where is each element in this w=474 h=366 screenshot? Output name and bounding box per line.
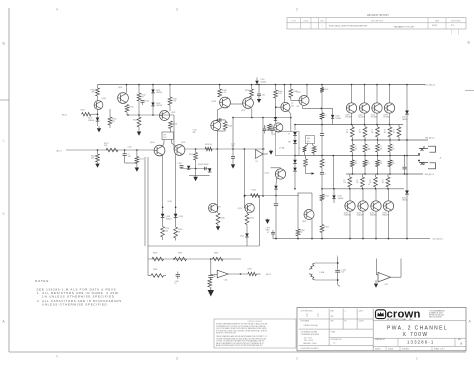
resistor R116: [168, 97, 172, 105]
resistor R178: [387, 174, 389, 177]
diode D113: [294, 136, 296, 141]
svg-text:D118: D118: [336, 116, 340, 118]
svg-text:Q132: Q132: [370, 212, 374, 214]
svg-text:1N4004: 1N4004: [402, 119, 408, 121]
svg-text:A: A: [3, 320, 6, 324]
svg-text:2W: 2W: [92, 92, 95, 94]
svg-text:D123: D123: [402, 197, 406, 199]
relay coil lower zigzag: [309, 274, 315, 280]
transistor Q131: [362, 189, 364, 201]
svg-text:SYSTEM: SYSTEM: [402, 349, 409, 351]
svg-text:12: 12: [355, 146, 357, 148]
svg-text:R?: R?: [264, 127, 266, 129]
svg-text:1W: 1W: [346, 132, 349, 134]
diode D115: [294, 163, 296, 167]
svg-text:U1A: U1A: [224, 278, 228, 281]
svg-text:1N4004: 1N4004: [88, 120, 94, 122]
resistor R144 on VAS line: [251, 194, 260, 198]
transistor Q114 VAS: [275, 169, 285, 179]
svg-text:100: 100: [262, 94, 265, 96]
wire driver collector: [306, 85, 308, 97]
svg-text:1N4004: 1N4004: [166, 218, 172, 220]
relay coil upper zigzag: [309, 263, 315, 269]
resistor R126: [162, 217, 164, 226]
svg-text:3: 3: [176, 8, 178, 12]
svg-text:R186: R186: [153, 269, 157, 271]
svg-text:.001: .001: [231, 146, 234, 148]
ground stage2 tail: [195, 176, 197, 177]
svg-text:Q131: Q131: [357, 212, 361, 214]
svg-text:C: C: [3, 139, 6, 143]
wire U1A output: [228, 273, 248, 275]
svg-text:12: 12: [359, 130, 361, 132]
svg-text:1N4148: 1N4148: [156, 105, 162, 107]
svg-text:DATE: DATE: [435, 19, 440, 22]
transistor Q113: [245, 203, 254, 212]
svg-text:Q113: Q113: [238, 208, 242, 210]
svg-text:R180: R180: [153, 252, 157, 254]
svg-text:R154: R154: [325, 226, 329, 228]
wire drop x=170: [169, 85, 171, 98]
svg-text:12: 12: [371, 130, 373, 132]
wire Q116 collector: [283, 85, 285, 103]
resistor R173: [389, 156, 391, 161]
wire Q105 emitter drop: [175, 154, 177, 214]
svg-text:1W: 1W: [392, 148, 395, 150]
wire emitter Q123: [389, 113, 391, 124]
transistor Q120: [346, 103, 356, 113]
ground below R114: [138, 130, 140, 132]
diode D100: [96, 118, 100, 122]
transistor Q115: [274, 123, 283, 132]
resistor R154: [320, 225, 324, 233]
capacitor C126 output: [404, 156, 406, 167]
svg-text:2: 2: [325, 161, 326, 163]
resistor R130: [194, 153, 198, 161]
svg-text:C100: C100: [128, 147, 132, 149]
capacitor C125 x=322: [320, 171, 324, 173]
svg-text:P ENG: P ENG: [331, 332, 336, 334]
svg-text:39P: 39P: [193, 132, 197, 134]
output jack upper tip mark: [421, 148, 424, 151]
wire Q107 emitter drop: [251, 108, 253, 117]
resistor R148: [290, 85, 292, 90]
capacitor C106: [123, 153, 127, 155]
svg-text:10K: 10K: [104, 145, 108, 147]
svg-text:Q105: Q105: [181, 142, 185, 144]
wire cascode top link: [217, 119, 225, 121]
resistor R172: [377, 156, 379, 161]
wire U1B plus drop: [400, 259, 402, 278]
svg-text:133286-1.SCH (A): 133286-1.SCH (A): [304, 324, 318, 327]
svg-text:1W: 1W: [343, 182, 346, 184]
resistor R150: [320, 88, 324, 93]
svg-text:1W: 1W: [367, 163, 370, 165]
svg-text:C?: C?: [288, 134, 290, 136]
svg-text:R118: R118: [173, 123, 177, 125]
resistor R167: [377, 140, 379, 144]
wire driver base link: [291, 100, 299, 102]
wire drop x=153: [152, 85, 154, 116]
wire emitter Q121: [364, 113, 366, 124]
transistor Q105: [174, 145, 185, 156]
svg-text:1: 1: [416, 357, 418, 361]
svg-text:Q107: Q107: [241, 110, 245, 112]
svg-text:12: 12: [393, 130, 395, 132]
resistor R162 emitter: [377, 125, 379, 128]
svg-text:1: 1: [322, 26, 323, 28]
resistor R155 x=322 upper: [321, 156, 323, 160]
diode D122: [405, 111, 409, 115]
transistor Q118: [304, 210, 314, 220]
wire Q116 base: [276, 106, 281, 108]
svg-text:1W: 1W: [369, 182, 372, 184]
transistor Q107: [243, 98, 254, 109]
svg-text:Q120: Q120: [345, 114, 349, 116]
svg-text:12: 12: [367, 161, 369, 163]
transistor Q106: [220, 97, 231, 108]
resistor R146: [275, 85, 277, 91]
resistor R190: [248, 272, 257, 276]
resistor R161 emitter: [364, 125, 366, 128]
resistor R160 emitter: [351, 125, 353, 128]
svg-text:RELEASED TO P/L 4/97: RELEASED TO P/L 4/97: [394, 25, 414, 28]
ground comparator: [270, 150, 272, 151]
svg-text:R104: R104: [81, 110, 85, 112]
wire servo drop x=210.8: [210, 259, 212, 275]
svg-text:D109: D109: [179, 216, 183, 218]
svg-text:R182: R182: [178, 252, 182, 254]
svg-text:(B) 2-1: (B) 2-1: [62, 114, 67, 116]
svg-text:2: 2: [325, 174, 326, 176]
wire cascode drop: [216, 110, 218, 121]
capacitor C124: [320, 133, 324, 135]
svg-text:R138 1K: R138 1K: [205, 144, 213, 146]
svg-text:R130: R130: [189, 154, 193, 156]
ground big below R188: [210, 287, 212, 290]
transistor Q122: [372, 103, 382, 113]
resistor R163 emitter: [389, 125, 391, 128]
svg-text:LS1A: LS1A: [320, 271, 325, 274]
svg-text:R110: R110: [130, 106, 134, 108]
wire diode cluster upper: [180, 168, 211, 170]
svg-text:4.7K: 4.7K: [222, 92, 226, 94]
resistor R151a below switch: [307, 144, 309, 146]
capacitor C114: [232, 149, 234, 156]
svg-text:22K: 22K: [91, 158, 95, 160]
svg-text:Q118: Q118: [302, 221, 306, 223]
left margin zone tick: [0, 99, 9, 101]
svg-text:1N4004: 1N4004: [338, 198, 344, 200]
svg-text:4-18-97: 4-18-97: [359, 321, 365, 323]
capacitor C116a: [264, 125, 266, 128]
capacitor C118 on -VCC drop: [275, 196, 277, 204]
svg-text:Q133: Q133: [382, 212, 386, 214]
wire input shunt drop: [97, 150, 99, 154]
svg-text:1W: 1W: [371, 132, 374, 134]
resistor R122: [96, 154, 100, 162]
resistor R104: [82, 112, 91, 116]
svg-text:CHK: CHK: [331, 321, 334, 323]
capacitor C130: [177, 272, 179, 274]
svg-text:1W: 1W: [382, 182, 385, 184]
wire relay top: [315, 262, 338, 264]
svg-text:4-8-97: 4-8-97: [432, 25, 437, 27]
wire collector drop Q120: [351, 85, 353, 104]
diode D114: [293, 160, 297, 164]
wire Q106 emitter to cascode: [217, 108, 222, 111]
svg-text:Q123: Q123: [383, 114, 387, 116]
svg-text:1-4: 1-4: [333, 343, 335, 345]
svg-text:ECN 10394-2 / ALS FOR REVISION: ECN 10394-2 / ALS FOR REVISION HISTORY: [329, 25, 368, 28]
svg-text:-: -: [379, 275, 380, 277]
svg-text:+: +: [314, 265, 315, 267]
wire right bus x=407: [406, 85, 408, 239]
thermal switch box: [306, 136, 315, 144]
diode D117: [274, 117, 277, 120]
resistor R147 beside Q115: [268, 124, 272, 131]
svg-text:2SC3858: 2SC3858: [345, 117, 352, 119]
wire Q131 to -VCC: [362, 211, 364, 238]
wire Q130 to -VCC: [349, 211, 351, 238]
svg-text:UNITED STATEMENTS HEREOF ON TH: UNITED STATEMENTS HEREOF ON THIS THE BE …: [216, 323, 267, 326]
svg-text:1N?: 1N?: [288, 142, 291, 144]
resistor R110: [125, 105, 129, 113]
diode D110: [246, 225, 248, 234]
wire Q101 collector drop: [126, 85, 128, 93]
diode D120 lower: [333, 189, 335, 196]
svg-text:B: B: [3, 42, 6, 46]
svg-text:2.2K: 2.2K: [278, 93, 282, 95]
svg-text:R142: R142: [250, 217, 254, 219]
output jack lower tip mark: [421, 162, 424, 165]
svg-text:1W: 1W: [393, 132, 396, 134]
resistor R180: [152, 257, 164, 261]
wire U1A input tap: [211, 274, 217, 276]
resistor R170: [351, 156, 353, 161]
wire VR100 lead left: [163, 140, 165, 144]
resistor R152 lower: [321, 189, 323, 194]
svg-text:R?: R?: [219, 207, 221, 209]
wire PNP emitter rail: [322, 188, 404, 190]
transistor Q102: [160, 111, 170, 121]
svg-text:R190: R190: [248, 268, 252, 270]
resistor R134: [251, 85, 253, 90]
svg-text:R.T.: R.T.: [451, 25, 455, 27]
svg-text:(A) 2-7: (A) 2-7: [266, 273, 271, 276]
diode D108: [161, 214, 165, 218]
svg-text:Q102: Q102: [171, 112, 175, 114]
svg-text:B: B: [3, 212, 5, 216]
wire input signal line: [66, 149, 154, 151]
svg-text:QTY PER DWG: QTY PER DWG: [301, 311, 314, 313]
svg-text:1W: 1W: [392, 163, 395, 165]
transistor Q101: [118, 93, 129, 104]
capacitor C120 rail bypass: [272, 230, 274, 232]
svg-text:D120: D120: [338, 196, 342, 198]
resistor R112: [137, 93, 141, 101]
transistor Q121: [359, 103, 369, 113]
trimpot VR100 box: [162, 132, 174, 140]
svg-text:ANGLES ± 1 DEG: ANGLES ± 1 DEG: [304, 342, 318, 345]
wire C114 column upper: [232, 118, 234, 150]
svg-text:D104 1N4148: D104 1N4148: [198, 164, 208, 166]
svg-text:Q117: Q117: [297, 92, 301, 94]
svg-text:VBL (B) 2-4: VBL (B) 2-4: [425, 174, 435, 176]
wire mid output rail: [296, 155, 420, 157]
svg-text:1W: 1W: [384, 132, 387, 134]
resistor R156: [297, 193, 299, 229]
ground below D100: [98, 126, 100, 128]
svg-text:2K: 2K: [178, 231, 181, 233]
svg-text:Q114: Q114: [265, 172, 269, 174]
svg-text:RIGHTS TO PRIOR IN USE: RIGHTS TO PRIOR IN USE: [216, 333, 236, 335]
resistor R165: [351, 140, 353, 144]
wire arrow tap: [306, 173, 312, 175]
output jack upper contact: [419, 148, 428, 150]
svg-text:R152: R152: [325, 196, 329, 198]
svg-text:R?: R?: [299, 148, 301, 150]
bias spreader box: [276, 132, 300, 156]
capacitor C132: [208, 275, 213, 277]
transistor Q133: [388, 189, 390, 201]
svg-text:100: 100: [342, 272, 345, 274]
svg-text:FILE NAME: FILE NAME: [301, 320, 309, 323]
svg-text:C104: C104: [145, 101, 149, 103]
wire NPN emitter rail: [295, 124, 404, 126]
svg-text:1N4148: 1N4148: [336, 118, 342, 120]
svg-text:2SC: 2SC: [297, 106, 301, 108]
resistor R151: [320, 113, 324, 119]
wire VAS collector up: [280, 168, 282, 169]
svg-text:REV: REV: [320, 20, 324, 22]
svg-text:4.7: 4.7: [368, 149, 370, 151]
op-amp U1A: [217, 270, 228, 278]
wire U1B minus drop: [375, 259, 377, 275]
svg-text:D122: D122: [402, 117, 406, 119]
wire driver emitter: [302, 106, 304, 108]
diode D104: [187, 166, 190, 169]
svg-text:2: 2: [296, 357, 298, 361]
resistor R124: [136, 150, 138, 157]
comparator U2 triangle: [256, 150, 264, 159]
wire collector drop Q121: [364, 85, 366, 104]
svg-text:Q130: Q130: [344, 212, 348, 214]
wire VR100 lead right: [171, 140, 173, 144]
svg-text:R144: R144: [252, 190, 256, 192]
svg-text:4.7: 4.7: [267, 232, 269, 234]
svg-text:1W: 1W: [380, 163, 383, 165]
svg-text:12: 12: [343, 180, 345, 182]
svg-text:3: 3: [176, 357, 178, 361]
svg-text:2SC3858: 2SC3858: [358, 117, 365, 119]
svg-text:+VCC (B) 2-3: +VCC (B) 2-3: [424, 84, 435, 86]
svg-text:4.7: 4.7: [368, 184, 370, 186]
wire comparator output: [263, 153, 268, 155]
resistor R140: [216, 204, 218, 213]
svg-text:VBL (A) 2-2: VBL (A) 2-2: [425, 137, 435, 140]
resistor R166: [364, 140, 366, 144]
svg-text:1W: 1W: [380, 148, 383, 150]
svg-text:12: 12: [356, 180, 358, 182]
svg-text:C108: C108: [178, 163, 182, 165]
svg-text:REV: REV: [458, 339, 461, 341]
svg-text:S Y M: S Y M: [291, 20, 296, 22]
resistor R114: [137, 117, 141, 127]
svg-text:Q115: Q115: [272, 134, 276, 136]
svg-text:SW: SW: [331, 316, 334, 318]
resistor R128: [175, 217, 177, 227]
op-amp U1B: [378, 272, 391, 282]
svg-text:2SC3858: 2SC3858: [383, 117, 390, 119]
resistor R177: [375, 174, 377, 177]
svg-text:12: 12: [392, 146, 394, 148]
svg-text:38: 38: [214, 276, 216, 278]
svg-text:-VCC (B) 2-5: -VCC (B) 2-5: [432, 239, 443, 241]
ground below C114: [232, 163, 234, 164]
svg-text:47: 47: [301, 232, 303, 234]
diode D123: [405, 191, 409, 195]
svg-text:U2: U2: [256, 161, 258, 163]
svg-text:Q121: Q121: [358, 114, 362, 116]
resistor R142: [246, 213, 248, 214]
resistor R153 below rail: [305, 156, 307, 160]
svg-text:REVISION HISTORY: REVISION HISTORY: [367, 15, 389, 17]
svg-text:-1: -1: [345, 311, 346, 313]
svg-text:12: 12: [355, 161, 357, 163]
svg-text:12: 12: [382, 180, 384, 182]
ground below C122: [258, 98, 260, 99]
diode D112: [293, 132, 297, 136]
wire Q104 emitter drop: [162, 155, 164, 214]
svg-text:.XXX ± 1.013: .XXX ± 1.013: [304, 340, 313, 342]
svg-text:12: 12: [380, 146, 382, 148]
svg-text:Q?: Q?: [291, 103, 293, 105]
wire Q116 emitter: [288, 111, 291, 114]
svg-text:J1: J1: [440, 157, 442, 159]
svg-text:2: 2: [296, 8, 298, 12]
diode D119 rail feed: [256, 78, 258, 81]
svg-text:2.2: 2.2: [324, 114, 326, 116]
resistor R151b below switch: [312, 144, 314, 146]
resistor R118: [169, 121, 173, 129]
svg-text:4.7K: 4.7K: [173, 101, 177, 103]
svg-text:SIZE B: SIZE B: [375, 349, 381, 351]
svg-text:B: B: [468, 41, 471, 45]
wire driver bias line: [233, 117, 291, 119]
capacitor C122: [258, 85, 260, 94]
wire Q118 collector drop: [311, 193, 313, 210]
wire input bias line: [91, 113, 98, 115]
wire mid vertical to Q113: [243, 149, 245, 208]
svg-text:CONTRACT NO: CONTRACT NO: [331, 338, 343, 341]
ground below R122: [97, 162, 99, 164]
wire U1B output feedback: [391, 276, 402, 278]
svg-text:SHEET 1 OF 1: SHEET 1 OF 1: [434, 349, 445, 351]
limited rights notice box: [214, 319, 296, 348]
resistor R168: [389, 140, 391, 144]
svg-text:2SC3858: 2SC3858: [371, 117, 378, 119]
wire Q132 to -VCC: [375, 211, 377, 238]
resistor R171: [364, 156, 366, 161]
wire drop x=139: [138, 85, 140, 94]
svg-text:DESCRIPTION: DESCRIPTION: [371, 20, 384, 22]
svg-text:A: A: [469, 320, 472, 324]
capacitor C104: [141, 100, 145, 102]
svg-text:1N4148: 1N4148: [156, 92, 162, 94]
drawing number divider: [373, 337, 466, 339]
transistor Q104: [154, 145, 165, 156]
